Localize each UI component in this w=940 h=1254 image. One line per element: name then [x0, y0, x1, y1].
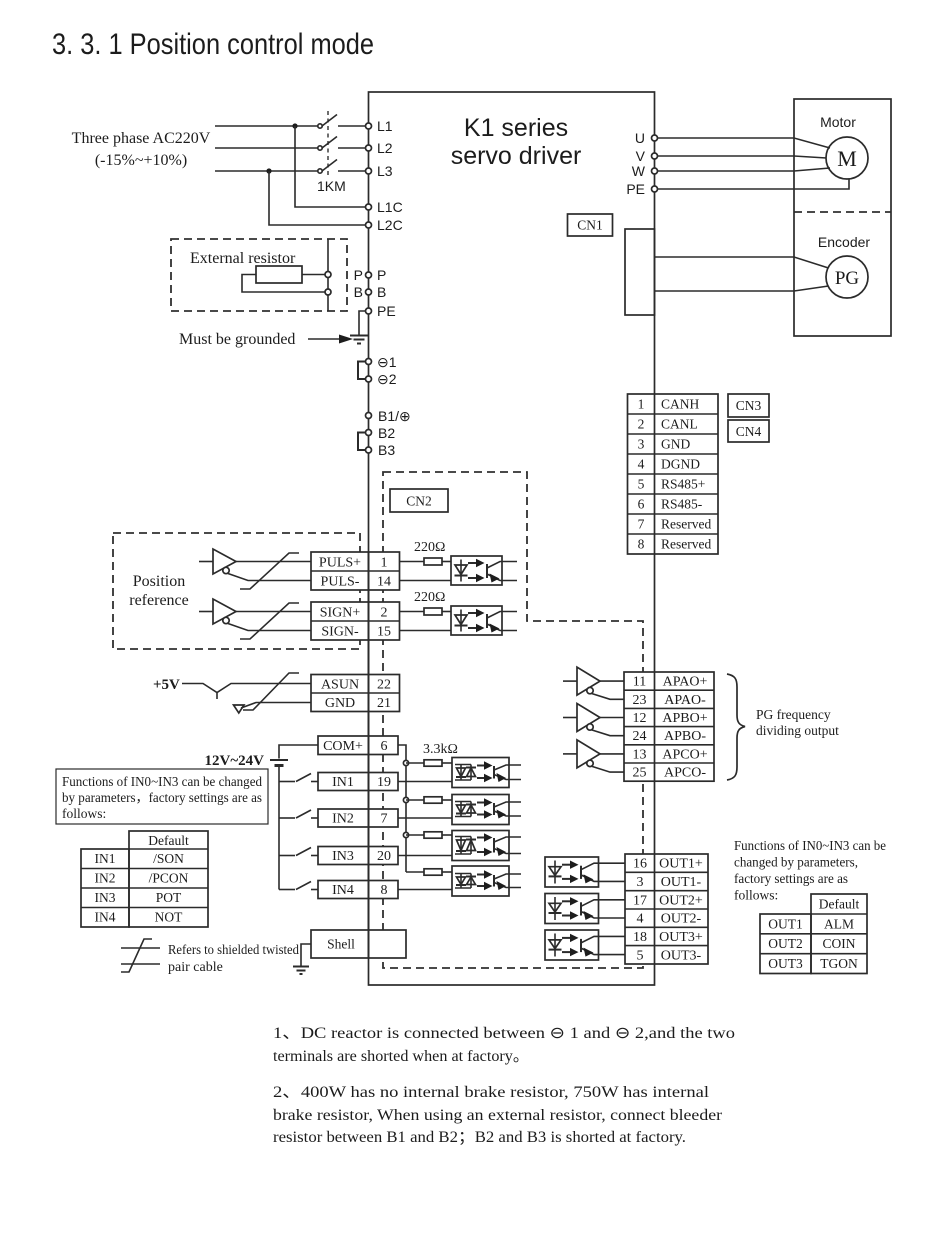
svg-text:2、400W has no internal brake: 2、400W has no internal brake resistor, 7…: [273, 1084, 710, 1101]
svg-text:11: 11: [633, 675, 646, 690]
svg-text:5: 5: [637, 948, 644, 963]
wire APAO input: [563, 680, 577, 682]
svg-text:Reserved: Reserved: [661, 517, 711, 532]
battery V1 (12V~24V): [270, 760, 288, 766]
pin box PULS+ pin 1 / PULS- pin 14: [311, 552, 400, 590]
svg-text:External resistor: External resistor: [190, 250, 296, 267]
svg-text:Shell: Shell: [327, 937, 355, 952]
note 1: DC reactor: [273, 1025, 735, 1065]
feed node IN2: [403, 797, 408, 802]
wire OUT2+: [599, 899, 626, 901]
svg-text:APCO-: APCO-: [664, 766, 706, 781]
switch 1KM pole 2: [318, 137, 366, 151]
svg-text:15: 15: [377, 625, 391, 640]
svg-text:by parameters，factory settings: by parameters，factory settings are as: [62, 790, 262, 805]
svg-text:dividing output: dividing output: [756, 723, 839, 738]
wire resistor to optocoupler IN1: [442, 762, 452, 764]
K1 servo driver box U1: [369, 92, 655, 985]
svg-text:PG frequency: PG frequency: [756, 707, 831, 722]
line driver (PULS): [213, 549, 236, 574]
svg-text:B: B: [377, 284, 386, 300]
CN1 connector block: [625, 229, 655, 315]
svg-text:22: 22: [377, 678, 391, 693]
shorting link between B2 and B3: [358, 433, 366, 451]
svg-text:NOT: NOT: [155, 910, 183, 925]
terminal L3: [366, 163, 393, 179]
ground symbol (Shell): [293, 967, 309, 975]
svg-text:21: 21: [377, 696, 391, 711]
svg-text:OUT2+: OUT2+: [659, 893, 703, 908]
svg-text:23: 23: [633, 693, 647, 708]
wire resistor to optocoupler IN3: [442, 834, 452, 836]
wire GND pin 21 to shield: [241, 703, 311, 709]
feed node IN1: [403, 760, 408, 765]
IN default table: [81, 831, 208, 927]
wire PULS driver input: [199, 561, 213, 563]
label +5V: [153, 677, 180, 693]
CN4 label box: [728, 420, 769, 442]
svg-text:PE: PE: [377, 303, 396, 319]
svg-text:8: 8: [638, 537, 645, 552]
wire pin14 to optocoupler: [400, 580, 452, 582]
svg-text:OUT1+: OUT1+: [659, 857, 703, 872]
optocoupler output stubs (IN1): [509, 765, 521, 780]
svg-text:OUT3: OUT3: [768, 956, 803, 971]
svg-text:5: 5: [638, 477, 645, 492]
optocoupler (OUT2 output): [545, 894, 599, 924]
wire pin to optocoupler IN1: [398, 781, 452, 783]
svg-text:1: 1: [638, 397, 645, 412]
terminal &#8854;1: [366, 354, 397, 370]
svg-text:CN2: CN2: [406, 494, 432, 509]
svg-text:RS485-: RS485-: [661, 497, 703, 512]
note: functions of outputs: [734, 838, 886, 903]
svg-text:W: W: [632, 163, 646, 179]
svg-text:L1C: L1C: [377, 199, 403, 215]
optocoupler (PULS input): [451, 556, 502, 585]
twisted pair mark (+5V pair): [243, 673, 299, 710]
svg-text:7: 7: [638, 517, 645, 532]
vertical bus in external resistor box: [327, 239, 329, 311]
wire pin to optocoupler IN4: [398, 889, 452, 891]
terminal L1C: [366, 199, 403, 215]
wire APCO input: [563, 753, 577, 755]
contactor 1KM dashed link: [327, 111, 329, 177]
svg-text:220Ω: 220Ω: [414, 540, 445, 555]
wire resistor to optocoupler IN4: [442, 871, 452, 873]
svg-text:PE: PE: [626, 181, 645, 197]
wire OUT2-: [599, 917, 626, 919]
svg-text:3: 3: [638, 437, 645, 452]
svg-text:12V~24V: 12V~24V: [205, 753, 265, 769]
wire OUT1-: [599, 880, 626, 882]
svg-text:L2C: L2C: [377, 217, 403, 233]
svg-text:13: 13: [633, 747, 647, 762]
wire OUT1+: [599, 862, 626, 864]
svg-text:OUT1-: OUT1-: [661, 875, 702, 890]
wire resistor to optocoupler IN2: [442, 799, 452, 801]
wire APAO-: [592, 694, 624, 700]
wire rail to IN3 switch: [279, 855, 295, 857]
wire to L1C: [295, 126, 366, 207]
node P (external): [325, 272, 331, 278]
label: Three phase AC220V (-15%~+10%): [72, 130, 211, 169]
svg-text:IN2: IN2: [332, 812, 354, 827]
svg-text:PULS+: PULS+: [319, 556, 361, 571]
svg-text:IN2: IN2: [95, 871, 116, 886]
svg-text:4: 4: [637, 912, 644, 927]
svg-text:B3: B3: [378, 442, 395, 458]
optocoupler (IN4): [452, 866, 509, 896]
CN3 label box: [728, 394, 769, 417]
label 3.3k&#937;: [423, 742, 458, 757]
CN2 label box: [390, 489, 448, 512]
label Encoder: [818, 234, 870, 250]
svg-text:OUT2-: OUT2-: [661, 912, 702, 927]
svg-text:220Ω: 220Ω: [414, 590, 445, 605]
switch 1KM pole 1: [318, 115, 366, 129]
svg-text:Reserved: Reserved: [661, 537, 711, 552]
svg-text:terminals are shorted when at: terminals are shorted when at factory。: [273, 1048, 529, 1065]
terminal V: [636, 148, 658, 164]
wire Shell to ground: [301, 944, 311, 966]
optocoupler (IN1): [452, 758, 509, 788]
pin box SIGN+ pin 2 / SIGN- pin 15: [311, 602, 400, 640]
PG frequency output pin table (APAO/APBO/APCO): [624, 672, 714, 781]
wire L1 input: [215, 125, 320, 127]
terminal L1: [366, 118, 393, 134]
svg-text:OUT1: OUT1: [768, 916, 803, 931]
CN1 label box: [568, 214, 613, 236]
svg-text:changed by parameters,: changed by parameters,: [734, 855, 858, 870]
svg-text:1、DC reactor is connected betw: 1、DC reactor is connected between ⊖ 1 an…: [273, 1025, 735, 1042]
terminal PE: [366, 303, 396, 319]
svg-text:Functions of IN0~IN3 can be: Functions of IN0~IN3 can be: [734, 838, 886, 853]
switch IN1: [296, 774, 318, 782]
pin box ASUN 22 / GND 21: [311, 675, 400, 712]
wire rail to IN2 switch: [279, 817, 295, 819]
twisted pair legend symbol: [121, 939, 160, 972]
wire APCO+: [600, 753, 624, 755]
svg-text:IN4: IN4: [95, 910, 116, 925]
svg-text:Position: Position: [133, 573, 185, 590]
terminal W: [632, 163, 658, 179]
wire APBO input: [563, 717, 577, 719]
svg-text:APAO+: APAO+: [663, 675, 708, 690]
wire SIGN+: [236, 611, 311, 613]
svg-text:resistor between B1 and B2；B2: resistor between B1 and B2；B2 and B3 is …: [273, 1129, 686, 1146]
terminal L2: [366, 140, 393, 156]
wire encoder B: [655, 286, 829, 291]
svg-text:servo driver: servo driver: [451, 142, 582, 170]
CN3/CN4 pin table (CANH..Reserved): [628, 394, 719, 554]
svg-text:Three phase AC220V: Three phase AC220V: [72, 130, 211, 147]
wire V to motor: [658, 156, 827, 158]
terminal B2: [366, 425, 396, 441]
resistor R-ext: [256, 266, 302, 283]
svg-text:24: 24: [633, 729, 647, 744]
svg-text:APBO-: APBO-: [664, 729, 706, 744]
svg-text:⊖2: ⊖2: [377, 371, 397, 387]
motor M1: [826, 137, 868, 179]
svg-text:OUT3-: OUT3-: [661, 948, 702, 963]
svg-text:⊖1: ⊖1: [377, 354, 397, 370]
svg-text:CANH: CANH: [661, 397, 700, 412]
svg-text:ASUN: ASUN: [321, 678, 359, 693]
optocoupler output stubs (IN4): [509, 874, 521, 888]
terminal PE (output): [626, 181, 657, 197]
svg-text:IN4: IN4: [332, 883, 354, 898]
wire resistor to P node: [302, 274, 325, 276]
wire pin15 to optocoupler: [400, 630, 452, 632]
svg-text:Refers to shielded twisted: Refers to shielded twisted: [168, 943, 299, 958]
svg-text:factory settings are as: factory settings are as: [734, 871, 848, 886]
svg-text:PG: PG: [835, 268, 860, 289]
svg-text:IN3: IN3: [95, 890, 116, 905]
svg-text:RS485+: RS485+: [661, 477, 705, 492]
pin box COM+ pin 6: [318, 736, 398, 755]
optocoupler (OUT3 output): [545, 930, 599, 960]
svg-text:POT: POT: [156, 890, 182, 905]
pin box IN2 pin 7: [318, 809, 398, 827]
svg-text:K1 series: K1 series: [464, 114, 568, 142]
svg-text:Encoder: Encoder: [818, 234, 870, 250]
optocoupler (SIGN input): [451, 606, 502, 635]
encoder PG1: [826, 256, 868, 298]
svg-text:brake resistor, When using an: brake resistor, When using an external r…: [273, 1107, 723, 1124]
terminal B: [354, 284, 387, 300]
wire rail to IN4 switch: [279, 889, 295, 891]
supply rail down to switches: [278, 766, 280, 890]
svg-text:U: U: [635, 130, 645, 146]
svg-text:OUT2: OUT2: [768, 936, 803, 951]
switch 1KM pole 3: [318, 160, 366, 174]
line driver (SIGN): [213, 599, 236, 624]
svg-text:Default: Default: [148, 833, 189, 848]
svg-text:/SON: /SON: [153, 851, 184, 866]
wire pin2 to resistor: [400, 611, 425, 613]
svg-text:CANL: CANL: [661, 417, 698, 432]
note box: functions of IN0~IN3: [56, 769, 268, 824]
svg-text:2: 2: [381, 606, 388, 621]
svg-text:8: 8: [381, 883, 388, 898]
value label 220&#937; (SIGN): [414, 590, 445, 605]
wire PULS-: [228, 574, 311, 581]
line driver (APAO): [577, 667, 600, 695]
svg-text:Functions of IN0~IN3 can be ch: Functions of IN0~IN3 can be changed: [62, 774, 262, 789]
value label 220&#937; (PULS): [414, 540, 445, 555]
wire rail to IN1 switch: [279, 781, 295, 783]
svg-text:APAO-: APAO-: [664, 693, 706, 708]
feed node IN3: [403, 832, 408, 837]
label: Position reference: [129, 573, 189, 609]
switch IN3: [296, 848, 318, 856]
svg-text:3.3kΩ: 3.3kΩ: [423, 742, 458, 757]
wire SIGN-: [228, 624, 311, 631]
wire OUT3-: [599, 954, 626, 956]
resistor 220 ohm (PULS): [424, 558, 442, 565]
svg-text:SIGN+: SIGN+: [320, 606, 361, 621]
svg-text:L1: L1: [377, 118, 393, 134]
svg-text:PULS-: PULS-: [321, 575, 360, 590]
wire resistor to optocoupler: [442, 611, 451, 613]
optocoupler output stubs (PULS): [502, 562, 517, 581]
terminal &#8854;2: [366, 371, 397, 387]
svg-text:IN3: IN3: [332, 849, 354, 864]
svg-text:P: P: [377, 267, 386, 283]
svg-text:CN3: CN3: [736, 398, 762, 413]
svg-text:3: 3: [637, 875, 644, 890]
optocoupler (IN2): [452, 795, 509, 825]
label: Must be grounded: [179, 331, 295, 348]
pin box Shell: [311, 930, 406, 958]
wire PULS+: [236, 561, 311, 563]
svg-text:Default: Default: [819, 897, 860, 912]
svg-text:2: 2: [638, 417, 645, 432]
svg-text:GND: GND: [661, 437, 690, 452]
terminal B1/&#8853;: [366, 408, 411, 424]
resistor 3.3k (IN4): [424, 869, 442, 875]
ground symbol (PE): [350, 336, 368, 344]
resistor 3.3k (IN3): [424, 832, 442, 838]
svg-text:GND: GND: [325, 696, 355, 711]
node B (external): [325, 289, 331, 295]
optocoupler output stubs (IN3): [509, 837, 521, 854]
driver box edge lines: [368, 552, 370, 958]
shorting link between reactor terminals: [358, 362, 366, 380]
wire feed to 3.3k resistor IN2: [406, 799, 424, 801]
junction node on L1 wire: [292, 123, 297, 128]
terminal P: [354, 267, 387, 283]
svg-text:3. 3. 1 Position control mode: 3. 3. 1 Position control mode: [52, 28, 374, 61]
terminal B3: [366, 442, 396, 458]
wire feed to 3.3k resistor IN1: [406, 762, 424, 764]
svg-text:ALM: ALM: [824, 916, 854, 931]
svg-text:16: 16: [633, 857, 647, 872]
svg-text:APBO+: APBO+: [662, 711, 707, 726]
output pin table (OUT1..OUT3): [625, 854, 708, 964]
optocoupler output stubs (SIGN): [502, 612, 517, 631]
svg-text:1: 1: [381, 556, 388, 571]
label: Refers to shielded twisted pair cable: [168, 943, 299, 975]
svg-text:B1/⊕: B1/⊕: [378, 408, 411, 424]
note 2: brake resistor: [273, 1084, 723, 1146]
pin box IN3 pin 20: [318, 847, 398, 865]
wire L2 input: [215, 147, 320, 149]
resistor 220 ohm (SIGN): [424, 608, 442, 615]
line driver (APBO): [577, 704, 600, 732]
svg-text:+5V: +5V: [153, 677, 180, 693]
label 1KM: [317, 178, 346, 194]
motor/encoder dashed divider: [794, 211, 891, 213]
wire +5V to pin 22: [182, 684, 311, 700]
svg-text:Motor: Motor: [820, 114, 856, 130]
wire feed to 3.3k resistor IN3: [406, 834, 424, 836]
svg-text:CN1: CN1: [577, 218, 603, 233]
switch IN4: [296, 882, 318, 890]
svg-text:1KM: 1KM: [317, 178, 346, 194]
OUT default table: [760, 894, 867, 974]
label: External resistor: [190, 250, 296, 267]
wire pin to optocoupler IN2: [398, 817, 452, 819]
brace for PG outputs: [727, 674, 745, 780]
title: 3.3.1 Position control mode: [52, 28, 374, 61]
resistor 3.3k (IN1): [424, 760, 442, 766]
wire U to motor: [658, 138, 831, 148]
svg-text:25: 25: [633, 766, 647, 781]
optocoupler (IN3): [452, 831, 509, 861]
wire feed to 3.3k resistor IN4: [406, 871, 424, 873]
wire APAO+: [600, 680, 624, 682]
wire resistor to optocoupler: [442, 561, 451, 563]
shield drain triangle: [234, 705, 245, 713]
switch IN2: [296, 810, 318, 818]
external resistor dashed box: [171, 239, 347, 311]
svg-text:IN1: IN1: [95, 851, 116, 866]
svg-text:P: P: [354, 267, 363, 283]
pin box IN4 pin 8: [318, 881, 398, 899]
svg-text:7: 7: [381, 812, 388, 827]
svg-text:20: 20: [377, 849, 391, 864]
twisted pair mark (SIGN): [240, 603, 299, 639]
svg-text:V: V: [636, 148, 646, 164]
terminal U: [635, 130, 658, 146]
optocoupler (OUT1 output): [545, 857, 599, 887]
svg-text:18: 18: [633, 930, 647, 945]
svg-text:L3: L3: [377, 163, 393, 179]
svg-text:APCO+: APCO+: [662, 747, 707, 762]
svg-text:19: 19: [377, 775, 391, 790]
svg-text:COIN: COIN: [823, 936, 856, 951]
svg-text:CN4: CN4: [736, 424, 762, 439]
svg-text:B: B: [354, 284, 363, 300]
resistor 3.3k (IN2): [424, 797, 442, 803]
svg-text:/PCON: /PCON: [149, 871, 189, 886]
svg-text:follows:: follows:: [62, 806, 106, 821]
svg-text:follows:: follows:: [734, 888, 778, 903]
wire pin1 to resistor: [400, 561, 425, 563]
wire encoder A: [655, 257, 829, 268]
svg-text:B2: B2: [378, 425, 395, 441]
pin box IN1 pin 19: [318, 773, 398, 791]
svg-text:OUT3+: OUT3+: [659, 930, 703, 945]
svg-text:12: 12: [633, 711, 647, 726]
motor box: [794, 99, 891, 336]
terminal L2C: [366, 217, 403, 233]
wire PE to ground: [359, 311, 366, 335]
svg-text:(-15%~+10%): (-15%~+10%): [95, 152, 187, 169]
line driver (APCO): [577, 740, 600, 768]
svg-text:6: 6: [638, 497, 645, 512]
junction node on L3 wire: [266, 168, 271, 173]
svg-text:pair cable: pair cable: [168, 960, 223, 975]
svg-text:17: 17: [633, 893, 647, 908]
wire APCO-: [592, 766, 624, 772]
label 12V~24V: [205, 753, 265, 769]
wire pin6 to opto feed rail: [398, 745, 406, 872]
svg-text:M: M: [837, 146, 857, 171]
CN2 dashed boundary: [383, 472, 643, 968]
wire COM+ to battery: [279, 745, 318, 759]
optocoupler output stubs (IN2): [509, 802, 521, 816]
arrow to ground: [308, 335, 353, 344]
svg-text:TGON: TGON: [820, 956, 858, 971]
svg-text:COM+: COM+: [323, 739, 363, 754]
wire SIGN driver input: [199, 611, 213, 613]
svg-text:Must be grounded: Must be grounded: [179, 331, 295, 348]
wire W to motor: [658, 168, 831, 171]
wire PE to motor: [658, 180, 850, 190]
